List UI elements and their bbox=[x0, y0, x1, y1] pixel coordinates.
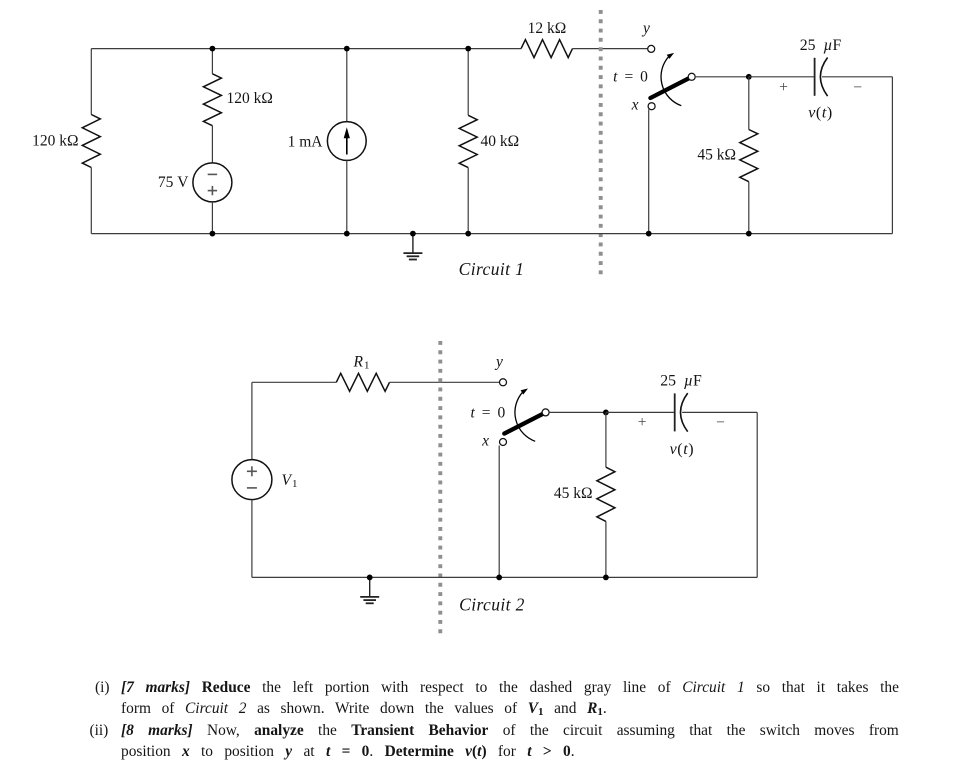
svg-text:x: x bbox=[631, 96, 639, 113]
wire bbox=[90, 168, 92, 234]
wire bbox=[468, 233, 649, 235]
svg-text:Circuit 2: Circuit 2 bbox=[459, 594, 525, 614]
resistor 12k bbox=[521, 40, 572, 58]
svg-text:v(t): v(t) bbox=[808, 104, 833, 121]
resistor 45k 1 bbox=[740, 130, 758, 182]
node bbox=[746, 74, 752, 80]
resistor 120k mid bbox=[203, 74, 221, 126]
svg-text:+: + bbox=[638, 414, 647, 431]
switch 1 arc arrow bbox=[661, 56, 681, 105]
wire bbox=[370, 576, 500, 578]
wire bbox=[91, 233, 212, 235]
wire bbox=[695, 76, 749, 78]
wire bbox=[467, 168, 469, 234]
wire bbox=[822, 76, 892, 78]
wire bbox=[748, 77, 750, 130]
node bbox=[603, 410, 609, 416]
problem text line 3 bbox=[90, 722, 109, 740]
node bbox=[210, 46, 216, 52]
svg-text:x: x bbox=[481, 433, 489, 450]
resistor 40k bbox=[459, 115, 477, 167]
capacitor 25uF 1 bbox=[814, 58, 816, 96]
ground 1 bbox=[412, 234, 414, 254]
node bbox=[603, 575, 609, 581]
svg-text:v(t): v(t) bbox=[670, 441, 695, 458]
node bbox=[344, 46, 350, 52]
wire bbox=[891, 77, 893, 234]
svg-text:+: + bbox=[779, 79, 788, 96]
wire bbox=[90, 49, 92, 115]
wire bbox=[749, 233, 893, 235]
switch 2 bar bbox=[504, 412, 545, 433]
wire bbox=[347, 48, 468, 50]
wire bbox=[252, 381, 336, 383]
svg-text:1 mA: 1 mA bbox=[288, 133, 324, 150]
node bbox=[496, 575, 502, 581]
terminal x 2 bbox=[500, 439, 507, 446]
wire bbox=[749, 76, 815, 78]
voltage source V1 circle bbox=[232, 460, 272, 500]
voltage source V1 plus bbox=[247, 470, 257, 472]
wire bbox=[606, 411, 675, 413]
wire bbox=[649, 233, 749, 235]
wire bbox=[498, 446, 500, 578]
voltage source 75V plus bbox=[208, 190, 217, 192]
wire bbox=[251, 382, 253, 459]
wire bbox=[211, 49, 213, 74]
node bbox=[410, 231, 416, 237]
svg-text:25 µF: 25 µF bbox=[800, 37, 842, 54]
svg-text:25 µF: 25 µF bbox=[660, 373, 702, 390]
wire bbox=[682, 411, 757, 413]
svg-text:t = 0: t = 0 bbox=[470, 405, 506, 422]
node bbox=[367, 575, 373, 581]
wire bbox=[91, 48, 212, 50]
node bbox=[210, 231, 216, 237]
svg-text:45 kΩ: 45 kΩ bbox=[554, 485, 593, 502]
current source 1mA circle bbox=[327, 122, 366, 161]
node bbox=[746, 231, 752, 237]
wire bbox=[211, 126, 213, 163]
node bbox=[646, 231, 652, 237]
wire bbox=[212, 48, 346, 50]
svg-text:t = 0: t = 0 bbox=[613, 68, 649, 85]
ground 2 bbox=[369, 577, 371, 597]
svg-text:y: y bbox=[494, 354, 503, 371]
wire bbox=[390, 381, 500, 383]
wire bbox=[468, 48, 521, 50]
node bbox=[344, 231, 350, 237]
svg-text:40 kΩ: 40 kΩ bbox=[481, 133, 520, 150]
svg-text:R1: R1 bbox=[353, 354, 370, 372]
current source 1mA arrow bbox=[346, 133, 348, 155]
resistor 45k 2 bbox=[597, 467, 615, 521]
wire bbox=[648, 109, 650, 233]
wire bbox=[252, 576, 370, 578]
terminal pivot 2 bbox=[542, 409, 549, 416]
terminal y 1 bbox=[648, 45, 655, 52]
svg-text:12 kΩ: 12 kΩ bbox=[528, 20, 567, 37]
wire bbox=[606, 576, 757, 578]
wire bbox=[211, 202, 213, 234]
node bbox=[465, 231, 471, 237]
wire bbox=[748, 182, 750, 234]
svg-text:Circuit 1: Circuit 1 bbox=[459, 259, 525, 279]
voltage source V1 minus bbox=[247, 487, 257, 489]
terminal pivot 1 bbox=[688, 73, 695, 80]
svg-text:45 kΩ: 45 kΩ bbox=[697, 146, 736, 163]
voltage source 75V minus bbox=[208, 173, 217, 175]
terminal x 1 bbox=[648, 103, 655, 110]
svg-text:120 kΩ: 120 kΩ bbox=[32, 133, 78, 150]
wire bbox=[756, 412, 758, 577]
capacitor 25uF 2 bbox=[674, 393, 676, 431]
wire bbox=[467, 49, 469, 116]
wire bbox=[499, 576, 606, 578]
dashed gray line 1 bbox=[599, 10, 603, 278]
wire bbox=[347, 233, 413, 235]
svg-text:V1: V1 bbox=[282, 472, 298, 490]
svg-text:−: − bbox=[716, 414, 725, 431]
wire bbox=[346, 49, 348, 122]
switch 2 arc arrow bbox=[515, 392, 535, 441]
wire bbox=[605, 412, 607, 467]
problem text line 4 bbox=[121, 743, 575, 761]
terminal y 2 bbox=[500, 379, 507, 386]
wire bbox=[573, 48, 649, 50]
wire bbox=[346, 160, 348, 233]
resistor 120k left bbox=[82, 115, 100, 168]
wire bbox=[251, 500, 253, 578]
dashed gray line 2 bbox=[438, 341, 442, 634]
wire bbox=[212, 233, 346, 235]
voltage source 75V circle bbox=[193, 163, 232, 202]
svg-text:−: − bbox=[853, 79, 862, 96]
svg-text:75 V: 75 V bbox=[158, 174, 189, 191]
switch 1 bar bbox=[650, 77, 691, 98]
wire bbox=[605, 521, 607, 577]
node bbox=[465, 46, 471, 52]
wire bbox=[413, 233, 468, 235]
problem text line 2 bbox=[121, 700, 607, 718]
resistor R1 bbox=[336, 373, 389, 391]
problem text line 1 bbox=[95, 679, 110, 697]
svg-text:y: y bbox=[641, 20, 650, 37]
svg-text:120 kΩ: 120 kΩ bbox=[227, 90, 273, 107]
wire bbox=[549, 411, 606, 413]
